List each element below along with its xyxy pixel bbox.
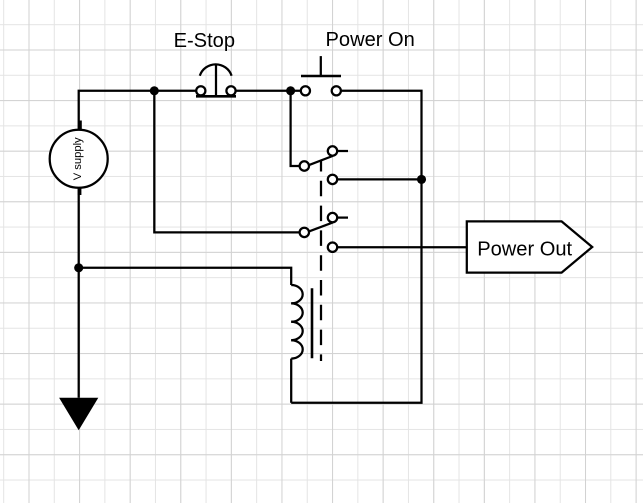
svg-text:Power Out: Power Out [477, 238, 572, 260]
svg-text:E-Stop: E-Stop [174, 30, 235, 52]
svg-text:Power On: Power On [326, 29, 415, 51]
svg-text:V supply: V supply [72, 137, 84, 180]
